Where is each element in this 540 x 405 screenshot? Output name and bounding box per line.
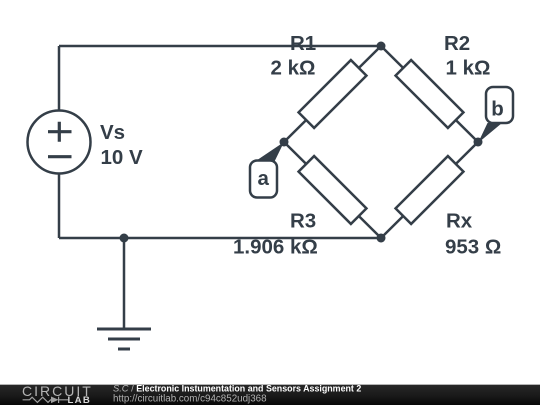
svg-text:R1: R1 xyxy=(290,32,316,55)
svg-text:LAB: LAB xyxy=(68,395,92,405)
svg-text:R2: R2 xyxy=(444,32,470,55)
svg-text:Rx: Rx xyxy=(446,210,473,233)
svg-text:953 Ω: 953 Ω xyxy=(445,236,501,259)
svg-text:10 V: 10 V xyxy=(101,146,143,169)
svg-text:S.C / Electronic Instumentatio: S.C / Electronic Instumentation and Sens… xyxy=(113,384,361,394)
svg-text:http://circuitlab.com/c94c852u: http://circuitlab.com/c94c852udj368 xyxy=(113,393,267,404)
svg-text:a: a xyxy=(257,167,269,190)
svg-text:2 kΩ: 2 kΩ xyxy=(271,57,316,80)
svg-text:1.906 kΩ: 1.906 kΩ xyxy=(233,236,318,259)
svg-text:1 kΩ: 1 kΩ xyxy=(446,57,491,80)
svg-text:b: b xyxy=(491,98,504,121)
svg-text:R3: R3 xyxy=(290,210,316,233)
svg-text:Vs: Vs xyxy=(100,121,125,144)
